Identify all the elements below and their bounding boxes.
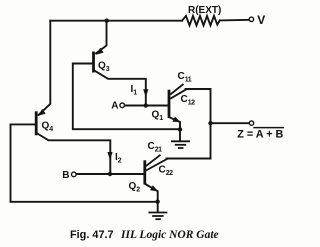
wire top rail	[50, 20, 182, 22]
wire Q4 base return bottom	[11, 124, 158, 201]
svg-text:C11: C11	[178, 71, 192, 84]
collector C12 slash	[170, 89, 186, 99]
svg-text:R(EXT): R(EXT)	[188, 5, 221, 16]
transistor Q4	[35, 111, 38, 135]
svg-text:C22: C22	[159, 165, 174, 178]
svg-text:C21: C21	[148, 141, 163, 154]
wire Q4 collector to node B	[37, 134, 110, 175]
svg-text:I1: I1	[131, 84, 138, 97]
collector C11 slash	[170, 84, 183, 95]
terminal Z circle	[249, 121, 253, 125]
collector C22 slash	[146, 159, 168, 171]
ground Q1	[171, 141, 190, 148]
svg-text:Q2: Q2	[129, 181, 141, 194]
node dot A junction	[144, 103, 148, 107]
node dot Q2 emitter junction	[155, 200, 159, 204]
wire node B line	[76, 173, 144, 175]
node dot top rail Q3 tap	[105, 19, 109, 23]
svg-text:A: A	[111, 100, 118, 111]
svg-text:Fig. 47.7: Fig. 47.7	[70, 229, 114, 241]
svg-text:C12: C12	[181, 94, 196, 107]
resistor R(EXT)	[182, 16, 220, 26]
svg-text:Q3: Q3	[98, 61, 110, 74]
svg-text:Q1: Q1	[152, 110, 164, 123]
node dot B junction	[108, 172, 112, 176]
wire Q2 emitter to ground	[145, 184, 158, 212]
current arrow I1	[143, 89, 148, 97]
svg-text:I2: I2	[115, 152, 122, 165]
wire Q1 emitter to ground	[169, 117, 180, 140]
transistor Q3 emitter arrow	[96, 48, 104, 55]
wire Z output	[211, 122, 250, 124]
transistor Q2 emitter arrow	[150, 185, 158, 191]
node dot Q1 emitter junction	[178, 127, 182, 131]
transistor Q1	[168, 90, 171, 118]
node dot Z junction	[208, 121, 212, 125]
transistor Q3	[92, 52, 95, 73]
ground Q2	[148, 213, 167, 220]
svg-text:V: V	[257, 13, 265, 27]
terminal V circle	[249, 17, 253, 21]
transistor Q2	[143, 160, 146, 184]
wire Q3 base return	[73, 64, 180, 130]
wire C12 collector to output bus	[186, 89, 211, 159]
wire resistor to V terminal	[220, 19, 249, 22]
svg-text:Q4: Q4	[42, 121, 54, 134]
collector C21 slash	[146, 155, 161, 166]
terminal B circle	[72, 172, 77, 177]
wire Q4 emitter drop	[39, 21, 51, 115]
terminal A circle	[120, 103, 125, 108]
wire C22 collector horizontal	[167, 158, 211, 160]
wire Q3 collector to node A	[95, 71, 146, 106]
transistor Q4 emitter arrow	[38, 109, 46, 116]
svg-text:B: B	[62, 170, 69, 181]
svg-text:Z = A + B: Z = A + B	[237, 128, 283, 140]
current arrow I2	[107, 152, 112, 160]
wire Q3 emitter drop	[96, 21, 107, 54]
svg-text:IIL Logic NOR Gate: IIL Logic NOR Gate	[120, 229, 219, 241]
wire node A line	[125, 105, 168, 107]
transistor Q1 emitter arrow	[172, 117, 180, 123]
